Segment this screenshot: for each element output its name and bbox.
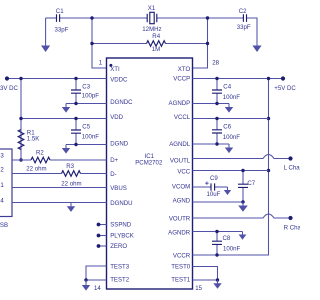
wire PLYBCK stub xyxy=(99,235,107,237)
svg-text:D+: D+ xyxy=(110,157,118,164)
svg-text:TEST3: TEST3 xyxy=(110,263,130,270)
capacitor C4 xyxy=(212,90,222,93)
wire SSPND stub xyxy=(99,224,107,226)
svg-text:1M: 1M xyxy=(152,46,160,53)
junction R4 right on XTO branch xyxy=(206,42,209,45)
capacitor C8 xyxy=(212,241,222,244)
svg-text:15: 15 xyxy=(195,285,202,292)
node PLYBCK open end xyxy=(97,234,101,238)
svg-text:33pF: 33pF xyxy=(55,26,69,33)
junction C5 bottom on DGND xyxy=(74,143,77,146)
svg-text:C8: C8 xyxy=(223,235,231,242)
resistor R2 xyxy=(31,157,50,163)
wire AGNDL line xyxy=(193,143,230,145)
junction R1 bottom on D+ line xyxy=(19,158,22,161)
wire C4 top lead xyxy=(216,79,218,91)
node ZERO open end xyxy=(97,244,101,248)
svg-text:C4: C4 xyxy=(223,83,231,90)
capacitor C3 xyxy=(71,90,81,93)
svg-text:VCCP: VCCP xyxy=(173,75,190,82)
wire VCOM left lead to C9 xyxy=(193,186,212,188)
svg-text:+5V DC: +5V DC xyxy=(274,85,296,92)
svg-text:C5: C5 xyxy=(82,124,90,131)
wire R4 right lead xyxy=(166,43,208,45)
svg-text:C2: C2 xyxy=(239,8,247,15)
junction C8 top on AGNDR xyxy=(215,230,218,233)
wire AGNDP line xyxy=(193,103,230,105)
wire XTI net from C1 to crystal X1 xyxy=(60,17,148,19)
wire 3V vertical branch xyxy=(20,79,22,161)
svg-text:C1: C1 xyxy=(56,8,64,15)
wire C4 bottom lead xyxy=(216,93,218,103)
svg-text:100nF: 100nF xyxy=(223,134,241,141)
ground on AGNDR line xyxy=(239,232,247,240)
svg-text:AGNDP: AGNDP xyxy=(169,100,191,107)
polarity plus mark of C9 xyxy=(205,182,208,185)
wire +5V vertical distribution xyxy=(193,79,269,256)
wire C1 left lead xyxy=(46,17,57,19)
capacitor C9 xyxy=(211,183,215,190)
wire TEST0 TEST1 to ground xyxy=(193,267,218,281)
svg-text:3V DC: 3V DC xyxy=(0,85,19,92)
resistor R1 xyxy=(18,130,24,150)
node +5V DC terminal xyxy=(281,76,285,80)
svg-text:28: 28 xyxy=(212,60,219,67)
ground on DGNDU line xyxy=(67,203,75,212)
svg-text:AGNDL: AGNDL xyxy=(169,141,191,148)
svg-text:C7: C7 xyxy=(247,180,255,187)
junction C5 top on VDD rail xyxy=(74,117,77,120)
wire USB ground to DGNDU pin xyxy=(12,202,107,204)
svg-text:100nF: 100nF xyxy=(82,133,100,140)
crystal X1 xyxy=(147,12,157,23)
svg-text:VCCR: VCCR xyxy=(173,252,191,259)
wire R4 left lead xyxy=(92,43,147,45)
svg-text:TEST1: TEST1 xyxy=(171,276,191,283)
wire XTI vertical branch to pin 1 xyxy=(92,18,107,68)
node 3V DC terminal xyxy=(5,76,9,80)
svg-text:SSPND: SSPND xyxy=(110,222,132,229)
svg-text:100pF: 100pF xyxy=(82,93,100,100)
svg-text:1.5K: 1.5K xyxy=(27,135,40,142)
ground on DGNDC line xyxy=(62,104,70,113)
svg-text:C3: C3 xyxy=(82,83,90,90)
svg-text:C9: C9 xyxy=(210,175,218,182)
junction C8 bottom on VCCR xyxy=(215,253,218,256)
wire C5 top lead xyxy=(75,119,77,131)
wire TEST3 TEST2 to ground xyxy=(86,266,107,280)
wire D+ from USB to R2 xyxy=(12,159,31,161)
svg-text:R4: R4 xyxy=(152,33,160,40)
ground on AGNDP line xyxy=(225,104,233,113)
wire 3V DC rail to VDDC pin xyxy=(7,78,107,80)
wire D- from USB to R3 xyxy=(12,173,62,175)
wire C3 bottom lead xyxy=(75,93,77,103)
junction C3 bottom on DGNDC xyxy=(74,102,77,105)
svg-text:X1: X1 xyxy=(148,5,156,12)
ground below C2 xyxy=(252,46,261,53)
resistor R4 xyxy=(147,41,166,47)
junction R4 left on XTI branch xyxy=(90,42,93,45)
svg-text:22 ohm: 22 ohm xyxy=(26,165,46,172)
ground on AGNDL line xyxy=(225,144,233,153)
wire ZERO stub xyxy=(99,245,107,247)
svg-text:XTI: XTI xyxy=(110,66,120,73)
junction C3 top on 3V rail xyxy=(74,77,77,80)
wire C8 top lead xyxy=(216,232,218,242)
svg-text:R2: R2 xyxy=(36,150,44,157)
op-amp IC1 PCM2702 body xyxy=(107,58,193,289)
wire C2 right lead to ground xyxy=(247,18,258,46)
ground for TEST0 TEST1 xyxy=(213,280,221,289)
wire C7 top lead xyxy=(242,171,244,185)
junction TEST2 line and ground branch xyxy=(84,278,87,281)
svg-text:100nF: 100nF xyxy=(223,94,241,101)
wire C6 top lead xyxy=(216,119,218,130)
wire C3 top lead xyxy=(75,79,77,91)
svg-text:TEST0: TEST0 xyxy=(171,263,191,270)
ground on AGND line xyxy=(238,202,248,212)
node VOUTR terminal xyxy=(288,216,292,220)
junction C6 bottom on AGNDL xyxy=(215,142,218,145)
wire AGND line xyxy=(193,201,244,203)
ground below C1 xyxy=(41,18,50,52)
junction +5V rail and vertical xyxy=(267,77,270,80)
junction C4 top on +5V rail xyxy=(215,77,218,80)
capacitor C7 xyxy=(238,184,248,187)
svg-text:VDDC: VDDC xyxy=(110,77,128,84)
junction 3V rail and vertical branch xyxy=(19,77,22,80)
svg-text:100nF: 100nF xyxy=(223,246,241,253)
wire DGND line xyxy=(66,144,107,146)
svg-text:USB: USB xyxy=(0,222,8,229)
wire R3 to D- pin xyxy=(81,173,107,175)
svg-text:XTO: XTO xyxy=(178,66,191,73)
svg-text:10uF: 10uF xyxy=(207,191,221,198)
ground on DGND line xyxy=(62,145,70,154)
svg-text:VDD: VDD xyxy=(110,114,123,121)
svg-text:AGNDR: AGNDR xyxy=(168,229,191,236)
wire C9 right lead xyxy=(215,186,228,188)
junction C4 bottom on AGNDP xyxy=(215,102,218,105)
wire C8 bottom lead xyxy=(216,244,218,255)
svg-text:L Chan: L Chan xyxy=(284,164,300,171)
wire VOUTL output with hop xyxy=(193,155,291,159)
ground after C9 xyxy=(224,187,231,195)
junction XTI net and C1 branch xyxy=(90,16,93,19)
svg-text:C6: C6 xyxy=(223,124,231,131)
wire VBUS line xyxy=(12,187,107,189)
junction VDD rail and vertical branch xyxy=(19,117,22,120)
wire C7 bottom lead xyxy=(242,187,244,202)
capacitor C1 xyxy=(57,14,60,22)
wire XTO vertical branch to pin 28 xyxy=(193,18,208,68)
capacitor C2 xyxy=(243,14,246,22)
svg-text:R Chan: R Chan xyxy=(284,225,300,232)
ground for TEST3 TEST2 xyxy=(82,280,90,291)
wire AGNDR line xyxy=(193,231,243,233)
svg-text:DGNDC: DGNDC xyxy=(110,99,133,106)
node VOUTL terminal xyxy=(288,156,292,160)
resistor R3 xyxy=(62,171,81,177)
wire +5V DC rail from VCCP pin xyxy=(193,78,284,80)
node SSPND open end xyxy=(97,223,101,227)
capacitor C5 xyxy=(71,130,81,133)
svg-text:DGND: DGND xyxy=(110,141,129,148)
junction XTO net and C2 branch xyxy=(206,16,209,19)
svg-text:22 ohm: 22 ohm xyxy=(61,180,81,187)
svg-text:VOUTR: VOUTR xyxy=(169,215,191,222)
junction C7 bottom on AGND xyxy=(241,200,244,203)
svg-text:VCOM: VCOM xyxy=(172,184,190,191)
svg-text:R3: R3 xyxy=(66,163,74,170)
junction C6 top on VCCL xyxy=(215,117,218,120)
svg-text:VOUTL: VOUTL xyxy=(170,157,191,164)
wire C6 bottom lead xyxy=(216,133,218,144)
svg-text:14: 14 xyxy=(94,285,101,292)
wire C5 bottom lead xyxy=(75,133,77,144)
svg-text:VBUS: VBUS xyxy=(110,185,127,192)
svg-text:ZERO: ZERO xyxy=(110,243,127,250)
wire VCCL line xyxy=(193,118,269,120)
wire R2 to D+ pin xyxy=(50,159,107,161)
pin 1 marker dot inside IC1 xyxy=(109,64,112,67)
junction C7 top on VCC line xyxy=(241,169,244,172)
svg-text:VCCL: VCCL xyxy=(174,114,191,121)
svg-text:DGNDU: DGNDU xyxy=(110,200,132,207)
junction VCC on +5V vertical xyxy=(267,169,270,172)
svg-text:AGND: AGND xyxy=(173,197,191,204)
wire DGNDC line xyxy=(66,103,107,105)
svg-text:33pF: 33pF xyxy=(237,24,251,31)
svg-text:PLYBCK: PLYBCK xyxy=(110,232,134,239)
wire crystal X1 to C2 xyxy=(157,17,243,19)
USB connector J1 body xyxy=(0,149,12,217)
svg-text:VCC: VCC xyxy=(177,169,190,176)
capacitor C6 xyxy=(212,130,222,133)
wire VOUTR output with hop xyxy=(193,214,291,218)
wire VCC line xyxy=(193,170,269,172)
junction VCCL on +5V vertical xyxy=(267,117,270,120)
svg-text:D-: D- xyxy=(110,171,116,178)
wire VDD rail xyxy=(21,118,107,120)
svg-text:PCM2702: PCM2702 xyxy=(135,159,163,166)
svg-text:TEST2: TEST2 xyxy=(110,276,130,283)
junction TEST1 line and ground branch xyxy=(216,278,219,281)
